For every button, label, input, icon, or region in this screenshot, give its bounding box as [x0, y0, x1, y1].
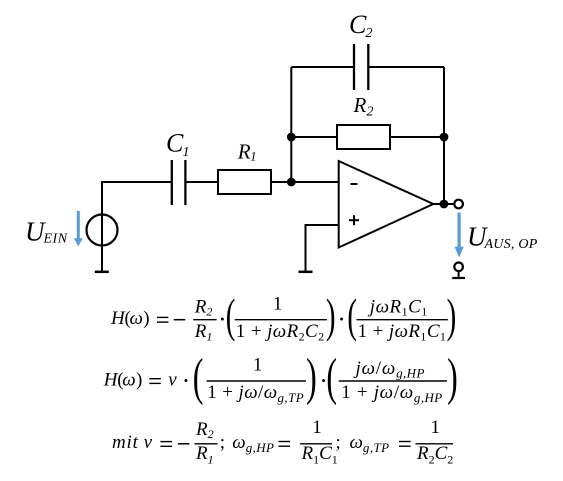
resistor R1: [218, 170, 271, 194]
node (left R2 junction): [287, 133, 296, 142]
svg-text:EIN: EIN: [43, 232, 68, 247]
svg-text:1: 1: [250, 150, 256, 164]
node (inverting input junction): [287, 178, 296, 187]
svg-text:1 + jω/ωg,HP: 1 + jω/ωg,HP: [341, 382, 442, 405]
wire: to C2 left plate: [291, 66, 354, 68]
svg-text:R2: R2: [195, 419, 214, 441]
arrow U_EIN (blue): [74, 211, 83, 246]
op-amp U1: [339, 161, 434, 248]
svg-text:·: ·: [337, 307, 345, 334]
svg-text:mit: mit: [112, 432, 139, 453]
svg-text:R2C2: R2C2: [416, 443, 453, 467]
svg-text:;: ;: [336, 432, 341, 453]
arrow U_AUS (blue): [455, 213, 464, 258]
svg-text:): ): [143, 308, 149, 329]
wire: left vertical branch: [290, 67, 292, 182]
eq3 fraction bars: [195, 443, 218, 445]
svg-text:jωR1C1: jωR1C1: [367, 297, 428, 319]
svg-text:(: (: [347, 289, 357, 342]
wire: source to C1: [101, 181, 172, 183]
wire: R2 right lead: [390, 136, 444, 138]
wire: R2 left lead: [291, 136, 337, 138]
svg-text:(: (: [193, 349, 204, 406]
svg-text:2: 2: [366, 26, 373, 41]
svg-text:): ): [447, 349, 458, 406]
ground (non-inverting input): [299, 271, 313, 274]
svg-text:1: 1: [183, 145, 190, 160]
eq2 fraction bars: [207, 380, 306, 382]
svg-text:ω: ω: [130, 308, 143, 329]
svg-text:): ): [136, 369, 142, 390]
wire: non-inverting input to ground: [306, 225, 339, 272]
eq1 big parens: [226, 289, 457, 342]
eq2 big parens: [193, 349, 458, 406]
output lower terminal: [454, 263, 463, 272]
svg-text:1: 1: [312, 417, 322, 438]
svg-text:ωg,HP: ωg,HP: [232, 432, 274, 455]
svg-text:1 + jωR2C2: 1 + jωR2C2: [236, 321, 325, 344]
svg-text:v: v: [144, 432, 153, 453]
capacitor C2: [353, 44, 355, 90]
svg-text:(: (: [226, 289, 236, 342]
svg-text:R1: R1: [195, 443, 214, 467]
svg-text:): ): [306, 349, 317, 406]
wire: right vertical branch: [443, 67, 445, 204]
svg-text:R1C1: R1C1: [301, 443, 338, 467]
capacitor C1: [171, 160, 173, 205]
svg-text:1: 1: [253, 355, 263, 376]
ground (under source): [95, 271, 109, 274]
wire: C1 to R1: [185, 181, 218, 183]
wire: R1 to op-amp inverting input: [271, 181, 339, 183]
svg-text:1: 1: [273, 293, 283, 314]
voltage source U_EIN: [87, 215, 118, 246]
svg-text:): ): [326, 289, 336, 342]
svg-text:2: 2: [367, 105, 374, 120]
svg-text:R: R: [353, 93, 367, 117]
svg-text:R1: R1: [194, 321, 213, 344]
svg-text:): ): [447, 289, 457, 342]
svg-text:1 + jω/ωg,TP: 1 + jω/ωg,TP: [207, 382, 304, 405]
node (right R2 junction): [440, 133, 449, 142]
svg-text:1 + jωR1C1: 1 + jωR1C1: [358, 321, 447, 344]
op-amp minus sign: [351, 183, 358, 185]
svg-text:(: (: [326, 349, 337, 406]
svg-text:·: ·: [182, 368, 190, 395]
svg-text:AUS, OP: AUS, OP: [484, 237, 538, 252]
wire: C2 right plate to right vertical: [368, 66, 444, 68]
eq1 fraction bars: [193, 319, 216, 321]
svg-text:R: R: [237, 140, 251, 164]
svg-text:C: C: [349, 10, 367, 39]
wire: vertical through source: [101, 182, 103, 272]
svg-text:R2: R2: [194, 297, 213, 319]
svg-text:C: C: [166, 129, 184, 158]
svg-text:;: ;: [220, 432, 225, 453]
output terminal (open circle): [454, 200, 463, 209]
op-amp plus sign: [349, 219, 359, 221]
node (output junction): [440, 200, 449, 209]
svg-text:ωg,TP: ωg,TP: [350, 432, 390, 455]
wire: op-amp output: [433, 203, 453, 205]
svg-text:1: 1: [431, 417, 441, 438]
svg-text:ω: ω: [122, 369, 135, 390]
svg-text:jω/ωg,HP: jω/ωg,HP: [353, 358, 425, 381]
svg-text:v: v: [168, 369, 177, 390]
resistor R2: [337, 125, 390, 149]
